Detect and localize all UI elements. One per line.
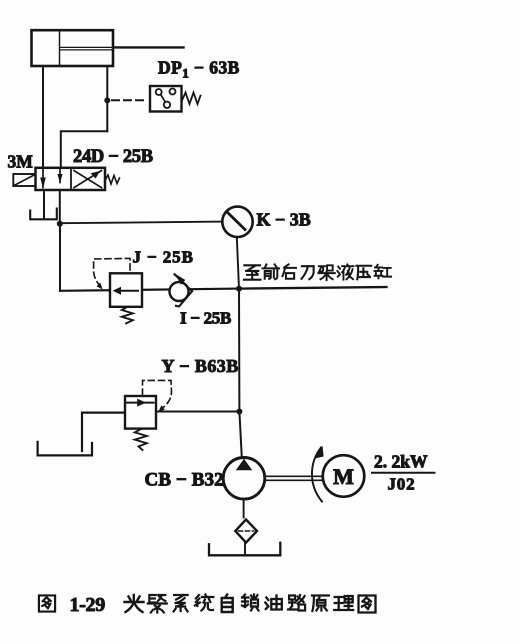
caption 锁: [242, 595, 259, 611]
J-25B pilot arrowhead: [97, 283, 103, 290]
caption 原: [312, 596, 329, 612]
node: junction at DP1 branch: [104, 97, 110, 103]
caption 图 (second): [359, 596, 376, 613]
pressure gauge K-3B: [222, 207, 252, 237]
svg-text:Y − B63B: Y − B63B: [162, 356, 239, 376]
svg-text:K − 3B: K − 3B: [257, 210, 311, 230]
Y-B63B spring below: [135, 429, 147, 450]
caption 统: [195, 595, 214, 611]
relief valve Y-B63B body: [125, 396, 156, 429]
Y-B63B pilot arrowhead: [159, 405, 165, 411]
svg-text:24D − 25B: 24D − 25B: [73, 147, 153, 167]
wire: valve supply down: [59, 190, 61, 224]
DP1 contact circle top-left: [156, 89, 162, 95]
cylinder: clamping hydraulic cylinder body: [32, 30, 114, 66]
solenoid 3M diagonal: [14, 175, 35, 186]
caption 图: [39, 595, 55, 611]
wire: motor shaft upper line: [265, 475, 323, 477]
svg-text:2. 2kW: 2. 2kW: [374, 452, 428, 472]
wire: gauge down to main junction: [237, 237, 239, 289]
svg-text:I − 25B: I − 25B: [180, 309, 231, 328]
caption 紧: [148, 595, 167, 613]
wire: cylinder right port down: [106, 66, 108, 131]
wire: motor shaft lower line: [265, 479, 323, 481]
tank: main reservoir at bottom: [209, 543, 280, 556]
wire: branch to gauge: [60, 222, 223, 224]
check valve I-25B ball: [170, 282, 189, 301]
valve right position: crossed arrows: [74, 171, 102, 188]
node: main cross junction: [236, 286, 242, 292]
caption 自: [222, 595, 233, 613]
pump CB-B32 circle: [223, 458, 265, 500]
valve left position: arrow P (down short): [59, 170, 61, 183]
solenoid 3M coil box: [13, 174, 35, 186]
check valve seat upper line with arrowhead: [175, 274, 193, 291]
cylinder piston: [59, 31, 61, 65]
wire: valve drain to tank: [43, 190, 45, 219]
fraction bar: [372, 472, 435, 474]
text 后: [282, 264, 295, 278]
svg-text:M: M: [333, 464, 354, 489]
DP1 contact circle top-right: [170, 89, 176, 95]
svg-text:J02: J02: [388, 475, 416, 494]
pump output triangle: [236, 459, 252, 470]
text 缸: [375, 265, 392, 278]
node: junction at relief valve branch: [236, 409, 242, 415]
wire: relief valve output to tank: [82, 413, 125, 451]
svg-text:J − 25B: J − 25B: [133, 248, 194, 267]
text 架: [318, 265, 335, 280]
caption 系: [174, 595, 188, 612]
node: junction below valve: [57, 221, 63, 227]
cylinder rod (outside): [114, 46, 184, 48]
J-25B spring below: [122, 307, 133, 323]
tank: under directional valve: [30, 209, 57, 220]
motor M circle: [323, 455, 365, 497]
motor rotation arc: [312, 448, 322, 502]
text 液: [337, 264, 353, 279]
caption 夹: [125, 595, 144, 612]
pressure relay DP1-63B box: [150, 86, 182, 112]
wire: dashed pilot to DP1: [112, 99, 148, 101]
caption 路: [288, 595, 305, 611]
cylinder rod (inside): [60, 46, 113, 48]
motor rotation arrowhead: [315, 446, 324, 459]
Y-B63B flow arrow: [127, 402, 154, 404]
J-25B pilot dashed line: [93, 258, 130, 286]
filter element dashed: [239, 530, 254, 532]
caption 油: [265, 596, 282, 610]
valve left position: arrow A-T (down): [42, 170, 44, 188]
wire: cylinder left port to valve: [42, 66, 44, 168]
gauge needle: [227, 212, 246, 230]
text 压: [356, 266, 371, 279]
svg-text:3M: 3M: [8, 152, 34, 172]
text 至 (line label): [244, 265, 261, 279]
text 刀: [301, 266, 313, 279]
wire: relief valve input: [156, 411, 239, 413]
caption 理: [334, 596, 353, 610]
wire: main horizontal line through J valve and check valve: [60, 289, 239, 291]
DP1 spring: [182, 93, 201, 105]
tank: relief valve drain tank: [38, 442, 92, 456]
wire: filter to tank: [244, 543, 246, 556]
text 前: [263, 264, 280, 279]
Y-B63B pilot dashed line: [143, 380, 172, 408]
wire: main line to tool-post cylinders: [239, 287, 387, 289]
valve 24D-25B body: [36, 168, 106, 190]
wire: jog to valve top: [61, 131, 108, 167]
check valve seat lower line: [176, 291, 192, 306]
DP1 contact circle bottom: [164, 102, 170, 108]
wire: down to main line: [59, 224, 61, 291]
svg-text:DP1 − 63B: DP1 − 63B: [158, 58, 240, 81]
filter diamond: [235, 520, 257, 543]
valve 24D-25B position divider: [70, 168, 72, 190]
svg-text:1-29: 1-29: [70, 594, 106, 616]
J-25B flow arrow: [118, 290, 138, 292]
reducing valve J-25B body: [110, 273, 142, 307]
svg-text:CB − B32: CB − B32: [145, 470, 224, 491]
valve return spring: [105, 175, 120, 184]
wire: pump to filter: [243, 499, 245, 518]
wire: main vertical to pump: [239, 289, 242, 458]
DP1 switch arm: [161, 95, 166, 103]
